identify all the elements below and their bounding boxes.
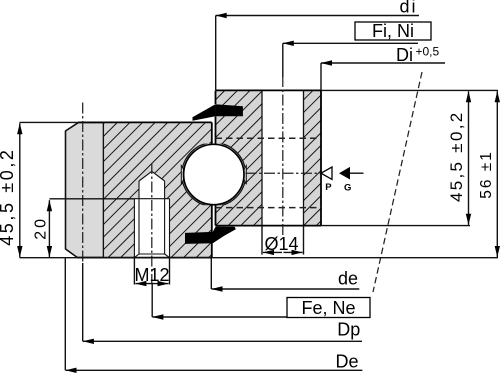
svg-text:M12: M12 [134, 265, 169, 285]
svg-text:Fi, Ni: Fi, Ni [372, 21, 414, 41]
svg-text:56 ±1: 56 ±1 [478, 150, 495, 199]
svg-text:P: P [325, 182, 332, 193]
svg-text:De: De [335, 352, 358, 372]
svg-text:Fe, Ne: Fe, Ne [301, 298, 355, 318]
svg-text:de: de [338, 269, 358, 289]
svg-text:Di: Di [396, 45, 413, 65]
svg-text:Dp: Dp [337, 320, 360, 340]
svg-text:45,5 ±0,2: 45,5 ±0,2 [0, 147, 17, 245]
svg-text:20: 20 [32, 216, 49, 240]
svg-text:+0,5: +0,5 [416, 45, 440, 59]
svg-text:di: di [400, 0, 418, 17]
svg-text:G: G [344, 183, 351, 194]
svg-text:Ø14: Ø14 [264, 234, 298, 254]
svg-text:45,5 ±0,2: 45,5 ±0,2 [447, 111, 466, 202]
